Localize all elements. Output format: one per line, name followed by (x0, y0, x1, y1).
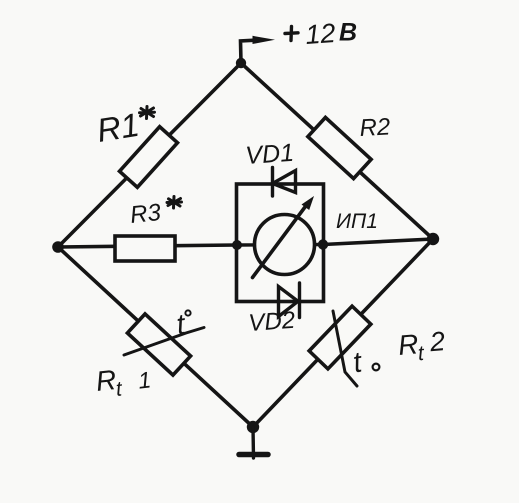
wire inside meter box (237, 243, 323, 247)
thermistor Rt1 (127, 314, 190, 375)
meter arrow (253, 196, 315, 278)
meter circle IP1 (255, 215, 315, 275)
wire left node to bottom node (58, 247, 253, 427)
junction node right (427, 233, 439, 245)
strike line of thermistor Rt2 (333, 311, 357, 386)
diode VD2 (279, 283, 300, 318)
diode VD1 (273, 168, 296, 197)
junction node top (236, 58, 246, 68)
label t0 for Rt2 (351, 346, 380, 379)
svg-text:ИП1: ИП1 (336, 210, 378, 233)
svg-text:12: 12 (304, 18, 336, 50)
ground (239, 427, 268, 458)
junction node meter left (232, 240, 242, 250)
wire left node to meter box (58, 245, 237, 247)
wire bottom node to right node (253, 239, 433, 427)
junction node left (52, 241, 64, 253)
svg-text:R2: R2 (359, 113, 391, 142)
svg-text:R1: R1 (94, 106, 141, 149)
resistor R3 (115, 236, 175, 261)
svg-text:VD2: VD2 (248, 307, 296, 337)
label Rt1 (94, 360, 152, 403)
label +12V (285, 18, 357, 50)
thermistor Rt2 (309, 306, 371, 369)
label t-degree for Rt1 (175, 308, 191, 341)
resistor R1 (120, 127, 178, 188)
wire top node to right node (241, 63, 433, 239)
junction node bottom (247, 421, 259, 433)
arrowhead +12V (253, 36, 276, 44)
svg-text:В: В (339, 19, 357, 47)
label Rt2 (397, 326, 447, 367)
meter box U1 (237, 184, 324, 302)
svg-text:VD1: VD1 (244, 139, 294, 170)
wire top node to left node (58, 63, 241, 247)
wire top node to +12V arrow (241, 40, 259, 63)
junction node meter right (318, 239, 328, 249)
svg-text:2: 2 (428, 326, 447, 357)
svg-text:1: 1 (137, 366, 152, 393)
resistor R2 (308, 117, 371, 178)
svg-text:R3: R3 (129, 199, 163, 229)
wire meter box to right node (323, 239, 433, 245)
strike line of thermistor Rt1 (124, 328, 204, 356)
asterisk for R1 (140, 107, 155, 119)
asterisk for R3 (167, 197, 182, 209)
